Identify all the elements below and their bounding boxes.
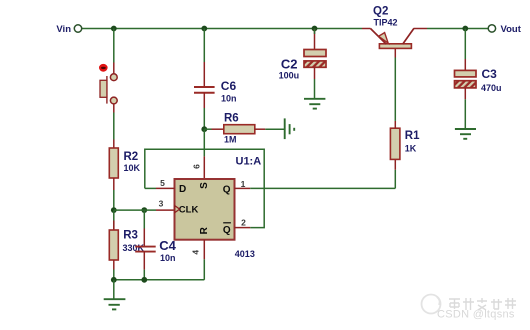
svg-text:100u: 100u (279, 71, 300, 81)
svg-text:C3: C3 (482, 67, 498, 81)
wire Q output to R1 (250, 187, 395, 189)
watermark Chinese text (449, 298, 516, 310)
wire S column (203, 129, 205, 179)
svg-text:Q: Q (223, 225, 231, 236)
svg-text:4: 4 (191, 250, 201, 255)
wire R3 to bottom rail (113, 270, 115, 280)
svg-text:R: R (199, 226, 210, 234)
ground under C3 (455, 129, 476, 139)
wire bottom rail (114, 279, 205, 281)
capacitor C4 (135, 210, 176, 270)
svg-text:1K: 1K (405, 144, 417, 154)
svg-text:Vin: Vin (56, 24, 71, 35)
wire main top rail right (Q2 collector to Vout) (414, 28, 489, 30)
pin 2 lead (Qbar) (235, 218, 251, 228)
watermark logo (422, 295, 441, 314)
svg-text:C2: C2 (281, 57, 298, 72)
svg-text:CLK: CLK (179, 205, 199, 216)
ground bottom-left (104, 280, 126, 310)
node junction C6/R6/S (201, 126, 207, 132)
wire button column top (113, 29, 115, 63)
wire CLK row (114, 209, 175, 211)
svg-text:D: D (179, 184, 186, 195)
svg-text:3: 3 (159, 199, 164, 209)
svg-text:C6: C6 (221, 79, 237, 93)
svg-text:TIP42: TIP42 (374, 18, 398, 28)
wire C6 to R6 node (203, 108, 205, 129)
node junction Vin-button (111, 26, 117, 32)
svg-text:6: 6 (192, 164, 202, 169)
pushbutton switch (100, 63, 117, 113)
node junction C3/Vout (462, 26, 468, 32)
resistor R1 (390, 121, 420, 188)
node junction C4 top (141, 207, 147, 213)
terminal Vin (56, 24, 81, 35)
capacitor C3 (electrolytic) (455, 29, 502, 100)
svg-text:2: 2 (241, 218, 246, 228)
clock input arrow (175, 206, 180, 213)
pin 4 lead (R) (191, 240, 205, 280)
svg-text:4013: 4013 (235, 249, 255, 259)
pin 1 lead (Q) (235, 179, 251, 189)
wire C3 to ground (464, 99, 466, 129)
svg-text:10n: 10n (221, 94, 237, 104)
svg-text:CSDN @ltqsns: CSDN @ltqsns (437, 309, 515, 321)
capacitor C6 (194, 29, 237, 109)
svg-text:5: 5 (160, 178, 165, 188)
svg-text:S: S (199, 182, 210, 189)
svg-text:R2: R2 (124, 151, 139, 163)
svg-text:10n: 10n (160, 253, 176, 263)
transistor Q2 TIP42 (371, 6, 414, 58)
svg-text:470u: 470u (481, 83, 502, 93)
pushbutton red actuator cap (99, 64, 108, 72)
svg-text:1M: 1M (224, 135, 237, 145)
resistor R2 (109, 140, 140, 191)
flip-flop U1:A 4013 (175, 156, 262, 259)
resistor R6 (204, 113, 284, 145)
node junction C2 top (312, 26, 318, 32)
pin 5 lead (D) (145, 178, 175, 188)
svg-text:R6: R6 (224, 113, 239, 125)
wire R2 to CLK node (113, 190, 115, 210)
wire button to R2 (113, 113, 115, 140)
resistor R3 (109, 210, 144, 269)
svg-text:R3: R3 (123, 230, 138, 242)
node junction C6 top (201, 26, 207, 32)
svg-text:Vout: Vout (501, 24, 522, 35)
capacitor C2 (electrolytic) (279, 29, 326, 81)
node junction C4 bottom (141, 277, 147, 283)
svg-text:Q2: Q2 (373, 6, 388, 18)
svg-text:Q: Q (223, 185, 231, 196)
terminal Vout (488, 24, 522, 35)
svg-text:10K: 10K (124, 163, 141, 173)
svg-text:1: 1 (241, 179, 246, 189)
svg-text:R1: R1 (405, 130, 420, 142)
wire R1 to Q2 base (394, 58, 396, 121)
svg-text:U1:A: U1:A (236, 156, 262, 168)
ground rotated (right of R6) (285, 118, 295, 139)
wire main top rail left (Vin to Q2 emitter) (82, 28, 371, 30)
ground under C2 (304, 99, 325, 109)
node junction R3/ground (111, 277, 117, 283)
wire C2 to ground (314, 79, 316, 99)
wire C4 to bottom rail (143, 270, 145, 280)
wire feedback loop D to Qbar (145, 149, 264, 227)
node junction R2/R3/CLK (111, 207, 117, 213)
